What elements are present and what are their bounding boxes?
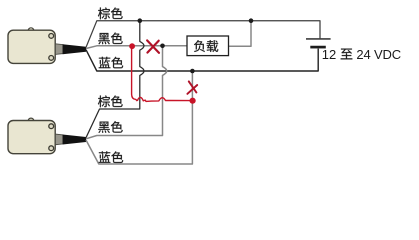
cable connector	[55, 44, 63, 55]
screw hole top	[49, 124, 54, 129]
label 黑色 sensor1 black	[98, 33, 109, 44]
red X mark 2 over sensor2 blue riser	[187, 81, 197, 93]
label 棕色 sensor1 brown	[98, 7, 110, 19]
wire: sensor2 black output riser to junction on black1 (gray), hop over blue1	[86, 46, 167, 139]
red X mark 1 over sensor1 black wire	[147, 40, 159, 53]
wire: load box to brown bus (gray)	[229, 21, 252, 47]
junction dot: black2 joins black1	[160, 44, 165, 49]
wire: sensor1 blue (0V) to battery -	[86, 49, 318, 71]
wire: sensor2 blue riser to junction on blue1 (gray)	[86, 71, 192, 164]
junction dot: blue2 joins blue1	[190, 69, 195, 74]
cable	[63, 44, 86, 54]
label 棕色 sensor2 brown	[98, 95, 110, 107]
screw hole bottom	[49, 146, 54, 151]
cable	[63, 135, 86, 145]
svg-text:12: 12	[322, 47, 336, 62]
screw hole top	[49, 34, 54, 39]
label 蓝色 sensor1 blue	[99, 57, 111, 68]
wire: sensor1 brown (+V) to battery +	[86, 21, 320, 48]
battery negative plate (short thick)	[310, 46, 326, 49]
sensor body	[8, 30, 55, 63]
red endpoint dot on sensor2 blue riser	[190, 98, 196, 104]
sensor top mounting bump	[28, 28, 34, 34]
cable connector	[55, 134, 63, 145]
wire: sensor1 black output to load (gray)	[86, 46, 187, 49]
red wrong-connection tap dot on sensor1 black wire	[129, 43, 135, 49]
battery positive plate (long)	[306, 38, 331, 40]
screw hole bottom	[49, 56, 54, 61]
sensor body	[8, 121, 55, 154]
svg-text:24 VDC: 24 VDC	[356, 47, 401, 62]
junction dot: brown2 joins brown bus	[138, 18, 143, 23]
label 黑色 sensor2 black	[98, 122, 109, 133]
junction dot: load riser joins brown bus	[249, 18, 254, 23]
label 蓝色 sensor2 blue	[99, 151, 111, 162]
label 负载 (load)	[194, 40, 205, 52]
sensor top mounting bump	[28, 118, 34, 124]
load box	[187, 36, 229, 56]
wire: sensor2 brown riser to brown bus, hops over black1 and blue1	[86, 21, 144, 138]
red wrong-connection path with hops	[132, 46, 193, 101]
